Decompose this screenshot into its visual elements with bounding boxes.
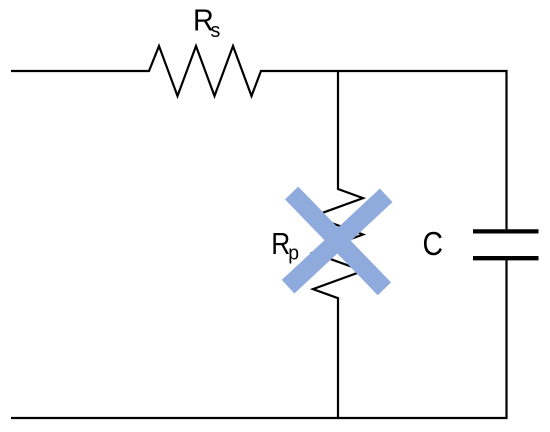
svg-text:C: C xyxy=(423,225,443,263)
svg-text:p: p xyxy=(288,242,299,264)
svg-text:s: s xyxy=(211,20,221,42)
